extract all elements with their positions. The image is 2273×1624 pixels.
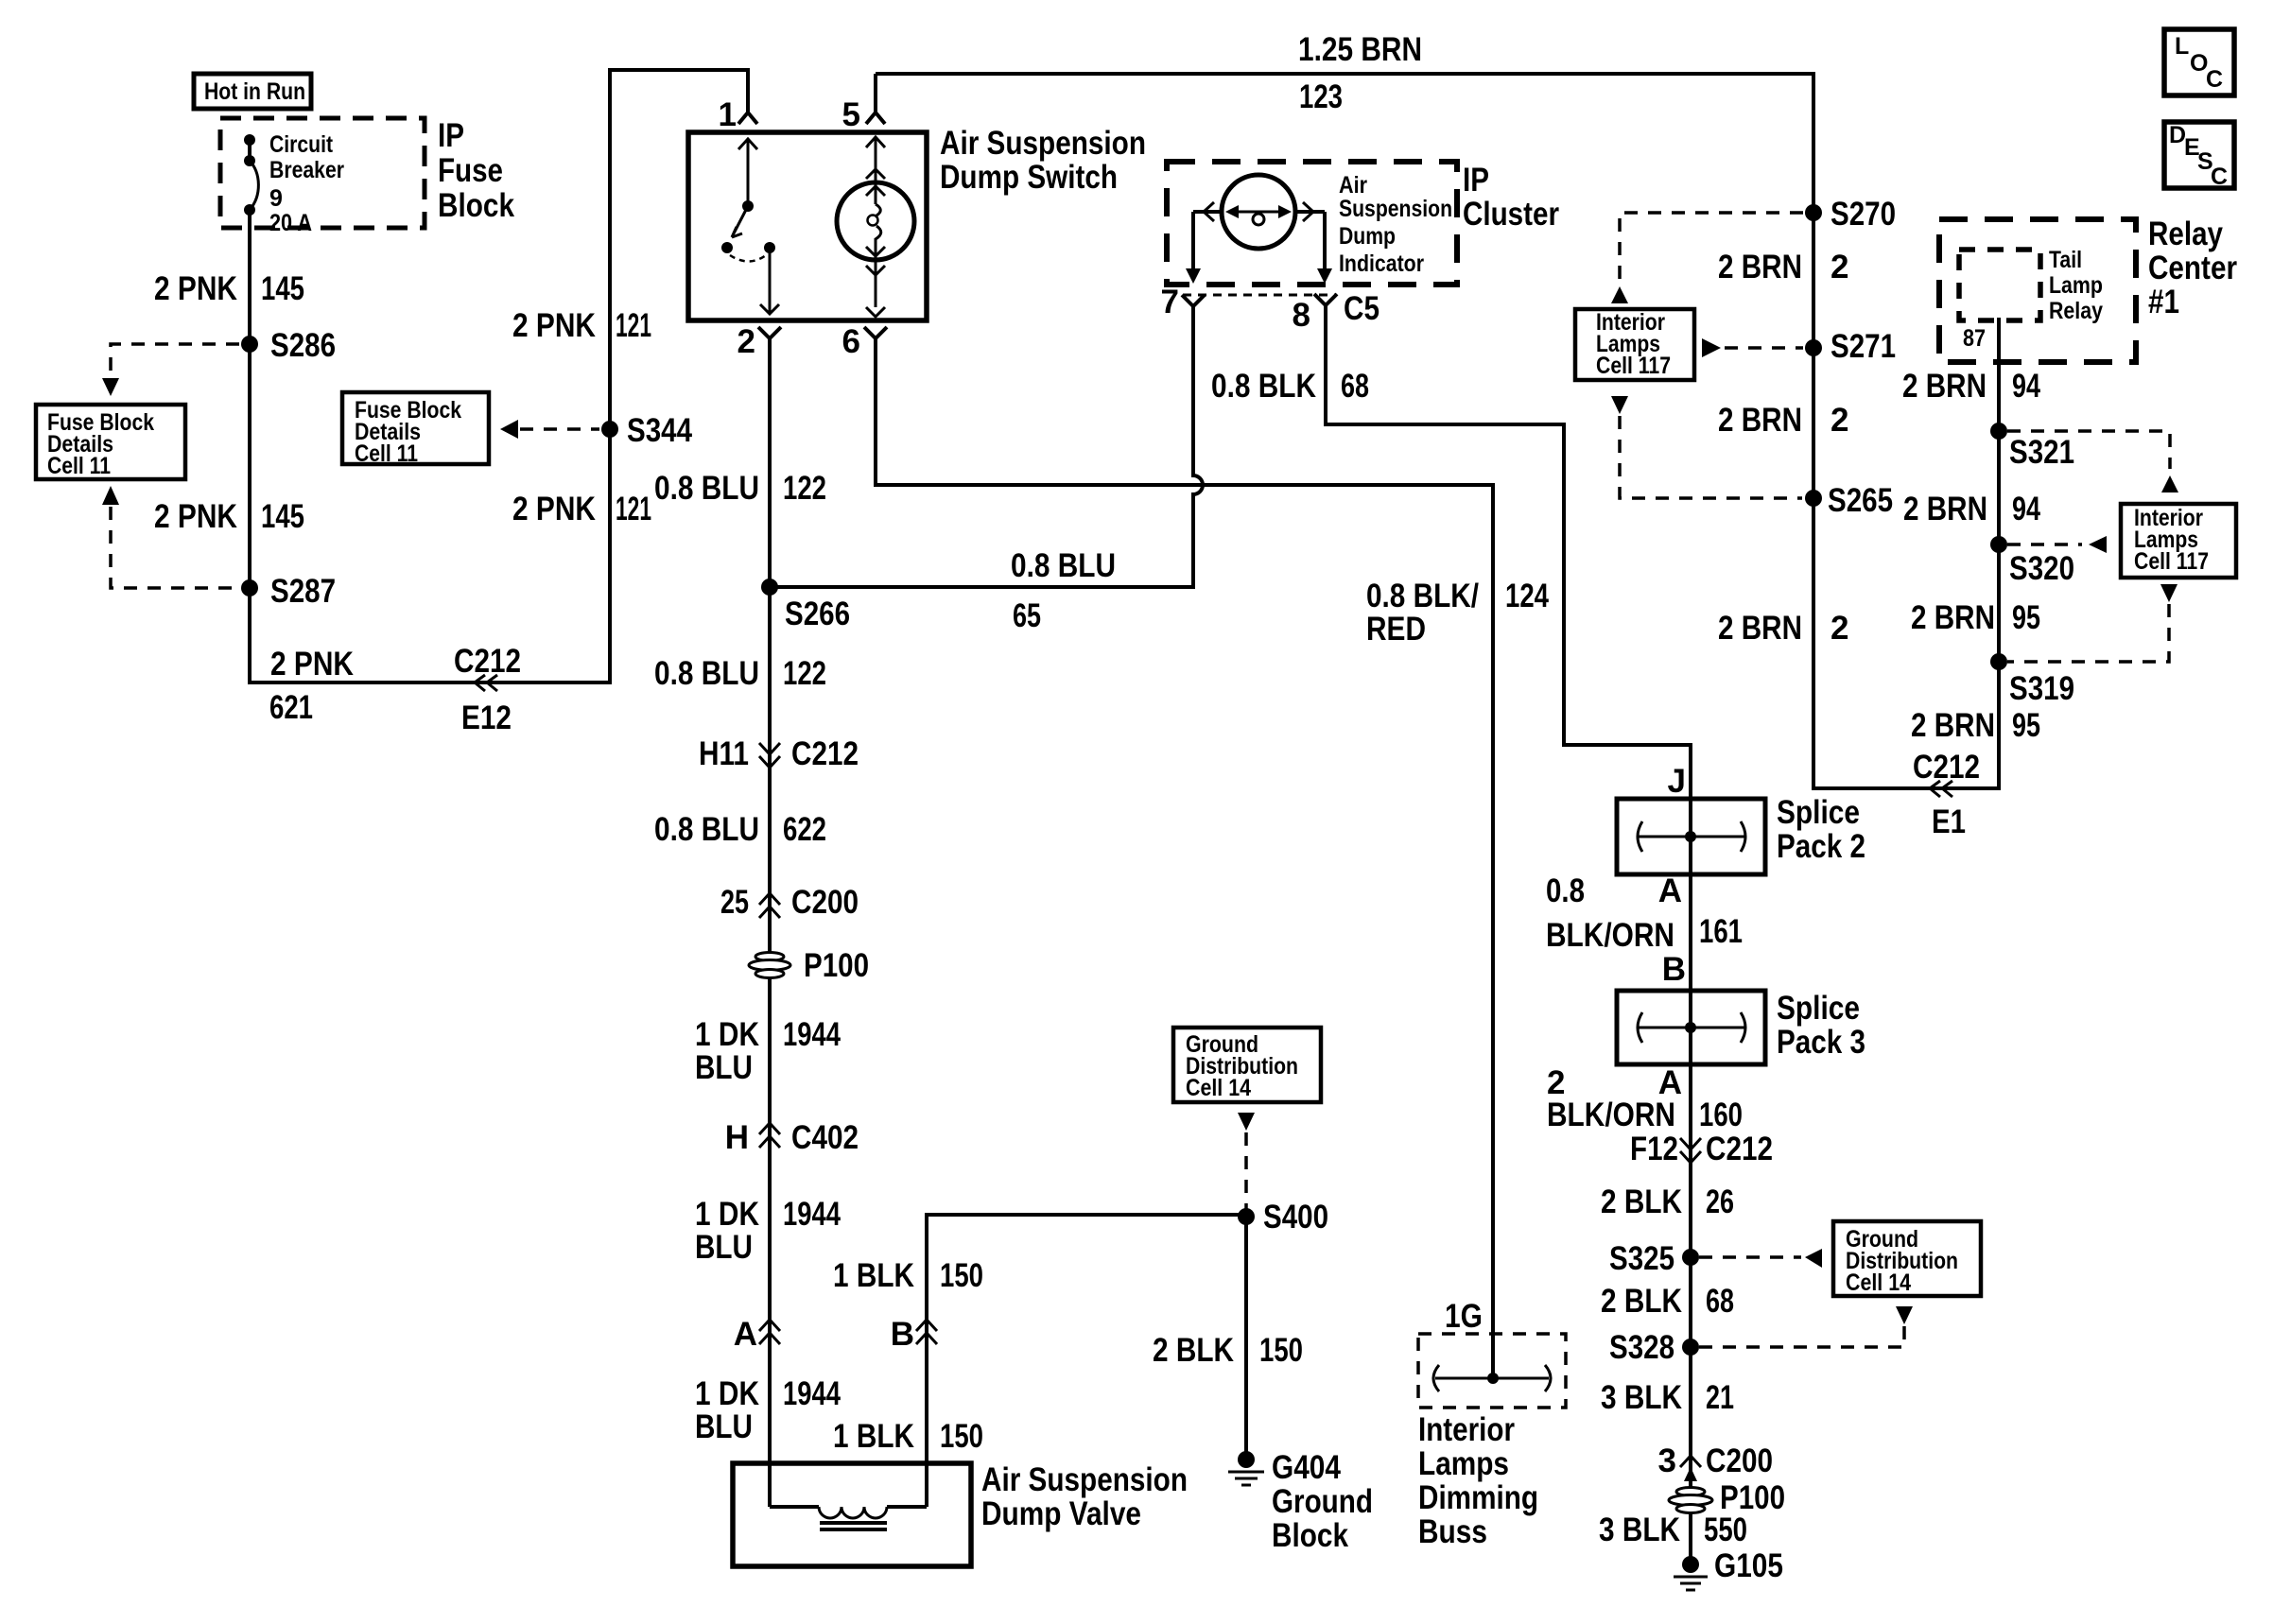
svg-text:122: 122 xyxy=(783,470,826,507)
svg-text:Splice: Splice xyxy=(1777,794,1860,831)
svg-text:S319: S319 xyxy=(2009,670,2074,707)
label 2 BRN 94 (S321-S320) xyxy=(1903,491,2040,527)
svg-text:3 BLK: 3 BLK xyxy=(1601,1379,1682,1416)
wire 0.8 BLK 68 from pin 8 to splice pack 2 xyxy=(1326,305,1691,799)
svg-text:95: 95 xyxy=(2012,707,2040,744)
dashed reference S321 to Interior Lamps Cell 117 lower (arrow up) xyxy=(2007,431,2178,492)
svg-text:BLU: BLU xyxy=(695,1229,753,1266)
svg-text:1G: 1G xyxy=(1445,1298,1483,1335)
node S344 xyxy=(601,412,692,449)
svg-text:0.8 BLU: 0.8 BLU xyxy=(654,811,759,848)
svg-text:Ground: Ground xyxy=(1272,1483,1373,1520)
label 2 BRN 94 (pin 87 wire) xyxy=(1902,368,2040,405)
svg-text:Air Suspension: Air Suspension xyxy=(940,125,1146,162)
pin 1 xyxy=(719,96,757,133)
svg-text:A: A xyxy=(734,1316,757,1353)
node S286 xyxy=(241,327,336,364)
node S271 xyxy=(1805,328,1896,365)
svg-text:Suspension: Suspension xyxy=(1339,196,1452,222)
circuit breaker text xyxy=(269,131,344,236)
svg-text:1 DK: 1 DK xyxy=(695,1016,759,1053)
svg-text:5: 5 xyxy=(842,96,860,133)
connector F12 C212 (double chevron down) xyxy=(1630,1131,1773,1167)
svg-text:J: J xyxy=(1668,763,1686,800)
pin 5 xyxy=(842,74,885,133)
svg-text:68: 68 xyxy=(1706,1283,1734,1320)
wire 0.8 BLU 65 from S266 to switch pin 7 riser (with hop) xyxy=(770,306,1203,587)
svg-text:550: 550 xyxy=(1704,1512,1747,1548)
splice pack 3 xyxy=(1617,990,1865,1064)
svg-text:BLU: BLU xyxy=(695,1049,753,1086)
node 1G Interior Lamps Dimming Buss xyxy=(1418,1298,1566,1550)
svg-text:1944: 1944 xyxy=(783,1016,841,1053)
label 0.8 BLK/ORN 161 xyxy=(1546,872,1743,954)
label 2 BRN 95 (S320-S319) xyxy=(1911,599,2040,636)
svg-text:E12: E12 xyxy=(461,700,512,736)
label 0.8 BLK 68 xyxy=(1211,368,1369,405)
dashed reference S320 to Interior Lamps Cell 117 lower (arrow left) xyxy=(2007,536,2107,553)
svg-text:0.8: 0.8 xyxy=(1546,872,1585,909)
svg-text:B: B xyxy=(891,1316,914,1353)
svg-text:0.8 BLU: 0.8 BLU xyxy=(654,470,759,507)
svg-text:1.25 BRN: 1.25 BRN xyxy=(1298,31,1422,68)
label 2 PNK 145 (lower) xyxy=(154,498,304,535)
svg-text:2 PNK: 2 PNK xyxy=(154,270,237,307)
svg-text:Air Suspension: Air Suspension xyxy=(981,1461,1188,1498)
svg-text:68: 68 xyxy=(1341,368,1369,405)
dashed reference Interior Lamps Cell 117 lower to S319 (arrow down below box) xyxy=(2007,584,2178,662)
valve solenoid coil xyxy=(770,1507,927,1529)
svg-text:S270: S270 xyxy=(1831,196,1896,233)
pin 7 xyxy=(1161,284,1205,320)
svg-text:Tail: Tail xyxy=(2049,247,2082,273)
svg-text:S320: S320 xyxy=(2009,550,2074,587)
svg-text:2 PNK: 2 PNK xyxy=(512,307,596,344)
svg-text:1 BLK: 1 BLK xyxy=(833,1418,914,1455)
svg-text:Pack 2: Pack 2 xyxy=(1777,828,1865,865)
svg-text:160: 160 xyxy=(1699,1097,1743,1133)
IP Cluster label xyxy=(1463,162,1559,233)
label 1 DK BLU 1944 (1) xyxy=(695,1016,841,1086)
svg-text:P100: P100 xyxy=(804,947,869,984)
svg-text:C200: C200 xyxy=(791,884,859,921)
svg-text:H: H xyxy=(725,1119,749,1156)
svg-text:621: 621 xyxy=(269,689,313,726)
svg-text:3: 3 xyxy=(1658,1443,1676,1479)
pin B connector (double chevron up) xyxy=(891,1316,937,1353)
dashed reference Ground Distribution to S328 (arrow down below box) xyxy=(1699,1306,1913,1347)
svg-text:Block: Block xyxy=(1272,1517,1348,1554)
grommet P100 (right) xyxy=(1669,1479,1785,1516)
svg-text:S321: S321 xyxy=(2009,434,2074,471)
svg-text:B: B xyxy=(1662,951,1686,988)
label 3 BLK 550 xyxy=(1599,1512,1747,1548)
svg-text:Cluster: Cluster xyxy=(1463,196,1559,233)
svg-text:3 BLK: 3 BLK xyxy=(1599,1512,1680,1548)
dashed reference S287 to Fuse Block Details (arrow up) xyxy=(102,486,238,588)
svg-text:2 BRN: 2 BRN xyxy=(1911,707,1995,744)
Interior Lamps Cell 117 box (lower) xyxy=(2121,504,2236,578)
node S265 xyxy=(1805,482,1893,519)
label 2 BRN 2 (below S265) xyxy=(1718,610,1848,647)
dashed reference Interior Lamps Cell 117 to S271 (arrow right) xyxy=(1702,338,1803,357)
svg-text:2 PNK: 2 PNK xyxy=(154,498,237,535)
svg-text:C212: C212 xyxy=(454,643,521,680)
svg-text:Cell 11: Cell 11 xyxy=(47,453,111,479)
svg-text:94: 94 xyxy=(2012,368,2040,405)
label 1 BLK 150 (upper) xyxy=(833,1257,983,1294)
svg-text:161: 161 xyxy=(1699,913,1743,950)
Air Suspension Dump Indicator lamp xyxy=(1193,175,1325,249)
Relay Center #1 label xyxy=(2148,216,2237,320)
label 2 PNK 121 (lower) xyxy=(512,491,651,527)
splice pack 2 xyxy=(1617,794,1865,874)
ground G404 Ground Block xyxy=(1228,1449,1373,1554)
Air Suspension Dump Switch label xyxy=(940,125,1146,196)
svg-text:123: 123 xyxy=(1299,78,1343,115)
node DESC symbol box xyxy=(2164,122,2234,190)
IP Fuse Block (dashed box) xyxy=(220,118,425,228)
svg-text:2 BLK: 2 BLK xyxy=(1601,1283,1682,1320)
connector C212 E12 (inline chevrons) xyxy=(454,643,521,736)
svg-text:Fuse: Fuse xyxy=(438,152,503,189)
connector 3 C200 (chevron up with arrow) xyxy=(1658,1443,1773,1481)
indicator lamp drop wires with arrows to connector C5 xyxy=(1186,212,1332,284)
wire 1.25 BRN 123 top run and right vertical to C212 E1 xyxy=(876,74,1999,788)
svg-text:S328: S328 xyxy=(1609,1329,1674,1366)
svg-text:BLK/ORN: BLK/ORN xyxy=(1547,1097,1675,1133)
dashed reference S286 to Fuse Block Details (arrow down) xyxy=(102,344,239,396)
svg-text:Breaker: Breaker xyxy=(269,157,344,183)
svg-text:1 DK: 1 DK xyxy=(695,1375,759,1412)
IP Cluster (dashed box) xyxy=(1167,162,1457,285)
pin A label (splice pack 3) xyxy=(1547,1064,1682,1101)
node Hot in Run label box xyxy=(194,74,311,109)
label 2 BLK 26 xyxy=(1601,1183,1734,1220)
node S320 xyxy=(1990,536,2074,587)
svg-text:21: 21 xyxy=(1706,1379,1734,1416)
svg-text:2 BRN: 2 BRN xyxy=(1902,368,1987,405)
node S328 xyxy=(1609,1329,1699,1366)
svg-text:Dimming: Dimming xyxy=(1418,1479,1538,1516)
label 2 BLK 150 xyxy=(1153,1332,1303,1369)
svg-text:Interior: Interior xyxy=(1418,1411,1515,1448)
svg-text:Cell 11: Cell 11 xyxy=(355,441,418,467)
svg-text:Dump Switch: Dump Switch xyxy=(940,159,1118,196)
svg-text:2 BLK: 2 BLK xyxy=(1601,1183,1682,1220)
svg-text:87: 87 xyxy=(1963,325,1986,352)
label 1 BLK 150 (lower) xyxy=(833,1418,983,1455)
Tail Lamp Relay (inner dashed box) xyxy=(1959,247,2103,324)
Air Suspension Dump Valve label xyxy=(981,1461,1188,1532)
svg-text:1944: 1944 xyxy=(783,1375,841,1412)
svg-text:Block: Block xyxy=(438,187,514,224)
IP Fuse Block label xyxy=(438,117,514,224)
svg-text:Cell 117: Cell 117 xyxy=(1596,353,1671,379)
svg-text:H11: H11 xyxy=(699,735,749,772)
svg-text:20 A: 20 A xyxy=(269,210,312,236)
svg-text:G105: G105 xyxy=(1714,1547,1783,1584)
svg-text:0.8 BLK: 0.8 BLK xyxy=(1211,368,1316,405)
svg-text:150: 150 xyxy=(940,1418,983,1455)
label 0.8 BLU 622 xyxy=(654,811,826,848)
label 2 PNK 145 (upper) xyxy=(154,270,304,307)
node S287 xyxy=(241,573,336,610)
svg-text:121: 121 xyxy=(616,491,651,527)
connector H C402 (double chevron up) xyxy=(725,1119,859,1156)
svg-text:Relay: Relay xyxy=(2148,216,2223,252)
svg-text:S287: S287 xyxy=(270,573,336,610)
wire through splice packs down to G105 xyxy=(1689,799,1692,1564)
Interior Lamps Cell 117 box (upper) xyxy=(1575,309,1694,380)
svg-text:Dump Valve: Dump Valve xyxy=(981,1495,1141,1532)
svg-text:1: 1 xyxy=(719,96,737,133)
label 2 PNK 621 on bottom run xyxy=(269,646,354,726)
switch lamp (inside box) xyxy=(837,137,914,317)
svg-text:150: 150 xyxy=(940,1257,983,1294)
svg-text:L: L xyxy=(2175,33,2189,60)
circuit breaker 9 20 A symbol xyxy=(244,134,258,216)
label 2 PNK 121 (upper) xyxy=(512,307,651,344)
svg-text:S266: S266 xyxy=(785,596,850,632)
svg-text:9: 9 xyxy=(269,185,283,212)
label 2 BLK 68 xyxy=(1601,1283,1734,1320)
node S270 xyxy=(1805,196,1896,233)
node S325 xyxy=(1609,1240,1699,1277)
svg-text:6: 6 xyxy=(842,323,860,360)
svg-text:F12: F12 xyxy=(1630,1131,1678,1167)
label 0.8 BLK/RED 124 xyxy=(1366,578,1549,648)
dashed reference S270 to Interior Lamps Cell 117 (arrow up above box) xyxy=(1611,213,1803,303)
label 2 BRN 2 (S271-S265) xyxy=(1718,402,1848,439)
svg-text:2: 2 xyxy=(1831,249,1848,285)
svg-text:1 BLK: 1 BLK xyxy=(833,1257,914,1294)
svg-text:#1: #1 xyxy=(2148,284,2179,320)
svg-text:G404: G404 xyxy=(1272,1449,1341,1486)
svg-text:C200: C200 xyxy=(1706,1443,1773,1479)
svg-text:2 BLK: 2 BLK xyxy=(1153,1332,1234,1369)
pin 6 xyxy=(842,323,887,360)
switch contact arm (inside box) xyxy=(721,139,779,314)
label 0.8 BLU 65 xyxy=(1011,547,1116,634)
wire 2 BLK 150 from S400 to G404 xyxy=(1244,1217,1248,1460)
svg-text:0.8 BLU: 0.8 BLU xyxy=(654,655,759,692)
pin A connector (double chevron up) xyxy=(734,1316,780,1353)
Air Suspension Dump Valve box xyxy=(733,1463,971,1566)
svg-text:Circuit: Circuit xyxy=(269,131,334,158)
label 1.25 BRN 123 xyxy=(1298,31,1422,115)
svg-text:2: 2 xyxy=(1831,402,1848,439)
svg-text:Air: Air xyxy=(1339,172,1367,199)
node S319 xyxy=(1990,653,2074,707)
svg-text:8: 8 xyxy=(1293,297,1310,334)
svg-text:25: 25 xyxy=(720,884,749,921)
Relay Center #1 (dashed box) xyxy=(1939,219,2136,362)
svg-text:E1: E1 xyxy=(1932,803,1966,840)
svg-text:S271: S271 xyxy=(1831,328,1896,365)
svg-text:2 PNK: 2 PNK xyxy=(512,491,596,527)
svg-text:Buss: Buss xyxy=(1418,1513,1487,1550)
label 2 BRN 2 (S270-S271) xyxy=(1718,249,1848,285)
Air Suspension Dump Indicator label xyxy=(1339,172,1452,277)
connector 25 C200 (double chevron up) xyxy=(720,884,859,921)
svg-text:2 PNK: 2 PNK xyxy=(270,646,354,682)
svg-text:0.8 BLK/: 0.8 BLK/ xyxy=(1366,578,1479,614)
svg-text:Cell 117: Cell 117 xyxy=(2134,548,2209,575)
svg-text:C402: C402 xyxy=(791,1119,859,1156)
svg-text:150: 150 xyxy=(1259,1332,1303,1369)
svg-text:2: 2 xyxy=(1831,610,1848,647)
svg-text:C212: C212 xyxy=(1913,749,1980,786)
svg-text:C: C xyxy=(2211,164,2228,190)
grommet P100 (left) xyxy=(749,947,869,984)
svg-text:2 BRN: 2 BRN xyxy=(1903,491,1987,527)
Ground Distribution Cell 14 box (right) xyxy=(1833,1221,1981,1296)
svg-text:S344: S344 xyxy=(627,412,692,449)
svg-text:C212: C212 xyxy=(791,735,859,772)
svg-text:2 BRN: 2 BRN xyxy=(1911,599,1995,636)
label 2 BRN 95 (below S319) xyxy=(1911,707,2040,744)
svg-text:2 BRN: 2 BRN xyxy=(1718,249,1802,285)
svg-text:Cell 14: Cell 14 xyxy=(1846,1270,1911,1296)
svg-text:BLK/ORN: BLK/ORN xyxy=(1546,917,1674,954)
pin 8 xyxy=(1293,290,1379,334)
svg-text:1 DK: 1 DK xyxy=(695,1196,759,1233)
svg-text:7: 7 xyxy=(1161,284,1179,320)
svg-text:145: 145 xyxy=(261,270,304,307)
svg-text:A: A xyxy=(1658,872,1682,909)
svg-text:2: 2 xyxy=(737,323,755,360)
svg-text:Dump: Dump xyxy=(1339,223,1396,250)
svg-text:0.8 BLU: 0.8 BLU xyxy=(1011,547,1116,584)
svg-text:S325: S325 xyxy=(1609,1240,1674,1277)
svg-text:Center: Center xyxy=(2148,250,2237,286)
wire 1 BLK 150 from S400 run down through pin B to valve xyxy=(927,1215,1246,1507)
svg-text:122: 122 xyxy=(783,655,826,692)
svg-text:RED: RED xyxy=(1366,611,1426,648)
connector C212 E1 (inline chevrons) xyxy=(1913,749,1980,840)
svg-text:Hot in Run: Hot in Run xyxy=(204,78,305,105)
label 1 DK BLU 1944 (3) xyxy=(695,1375,841,1445)
svg-text:95: 95 xyxy=(2012,599,2040,636)
svg-text:2 BRN: 2 BRN xyxy=(1718,610,1802,647)
svg-text:Indicator: Indicator xyxy=(1339,251,1424,277)
connector H11 C212 (double chevron down) xyxy=(699,735,859,772)
svg-text:26: 26 xyxy=(1706,1183,1734,1220)
dashed reference Interior Lamps Cell 117 to S265 (arrow down below box) xyxy=(1611,396,1802,498)
svg-text:C5: C5 xyxy=(1344,290,1379,327)
svg-text:121: 121 xyxy=(616,307,651,344)
wire 2 PNK 145 / 621 / 2 PNK 121 main left run xyxy=(250,70,748,682)
label 1 DK BLU 1944 (2) xyxy=(695,1196,841,1266)
label 0.8 BLU 122 (lower) xyxy=(654,655,826,692)
Fuse Block Details Cell 11 box (left) xyxy=(36,405,185,479)
dashed reference S344 to Fuse Block Details (arrow left) xyxy=(500,420,599,439)
svg-text:Lamps: Lamps xyxy=(1418,1445,1509,1482)
svg-text:622: 622 xyxy=(783,811,826,848)
svg-text:IP: IP xyxy=(438,117,464,154)
label 3 BLK 21 xyxy=(1601,1379,1734,1416)
node S266 xyxy=(761,579,850,632)
svg-text:145: 145 xyxy=(261,498,304,535)
svg-text:1944: 1944 xyxy=(783,1196,841,1233)
label 2 BLK/ORN 160 xyxy=(1547,1097,1743,1133)
label 0.8 BLU 122 (upper) xyxy=(654,470,826,507)
node S400 xyxy=(1238,1199,1328,1235)
wire 0.8 BLU 122 pin 2 vertical down through S266 to valve xyxy=(768,338,772,1507)
svg-text:Lamp: Lamp xyxy=(2049,272,2103,299)
connector C5 dashed line xyxy=(1183,294,1335,297)
node LOC symbol box xyxy=(2164,29,2234,95)
svg-text:S286: S286 xyxy=(270,327,336,364)
svg-text:S265: S265 xyxy=(1828,482,1893,519)
svg-text:2 BRN: 2 BRN xyxy=(1718,402,1802,439)
svg-text:Relay: Relay xyxy=(2049,298,2103,324)
dashed reference S325 to Ground Distribution Cell 14 (arrow) xyxy=(1699,1249,1822,1268)
pin 2 xyxy=(737,323,781,360)
svg-text:IP: IP xyxy=(1463,162,1489,199)
Fuse Block Details Cell 11 box (right) xyxy=(342,392,489,467)
svg-text:94: 94 xyxy=(2012,491,2040,527)
svg-text:S400: S400 xyxy=(1263,1199,1328,1235)
dashed reference Ground Distribution to S400 (arrow down) xyxy=(1238,1113,1255,1210)
svg-text:Splice: Splice xyxy=(1777,990,1860,1027)
Air Suspension Dump Switch box xyxy=(688,132,927,320)
svg-text:C: C xyxy=(2206,66,2223,93)
svg-text:Pack 3: Pack 3 xyxy=(1777,1024,1865,1061)
svg-text:BLU: BLU xyxy=(695,1408,753,1445)
svg-text:65: 65 xyxy=(1013,597,1041,634)
svg-text:124: 124 xyxy=(1505,578,1549,614)
ground G105 xyxy=(1674,1547,1783,1590)
wire 0.8 BLK/RED 124 from switch pin 6 to dimming buss xyxy=(876,338,1493,1378)
svg-text:C212: C212 xyxy=(1706,1131,1773,1167)
node S321 xyxy=(1990,423,2074,471)
svg-text:Cell 14: Cell 14 xyxy=(1186,1075,1251,1101)
Ground Distribution Cell 14 box (left) xyxy=(1173,1028,1321,1102)
